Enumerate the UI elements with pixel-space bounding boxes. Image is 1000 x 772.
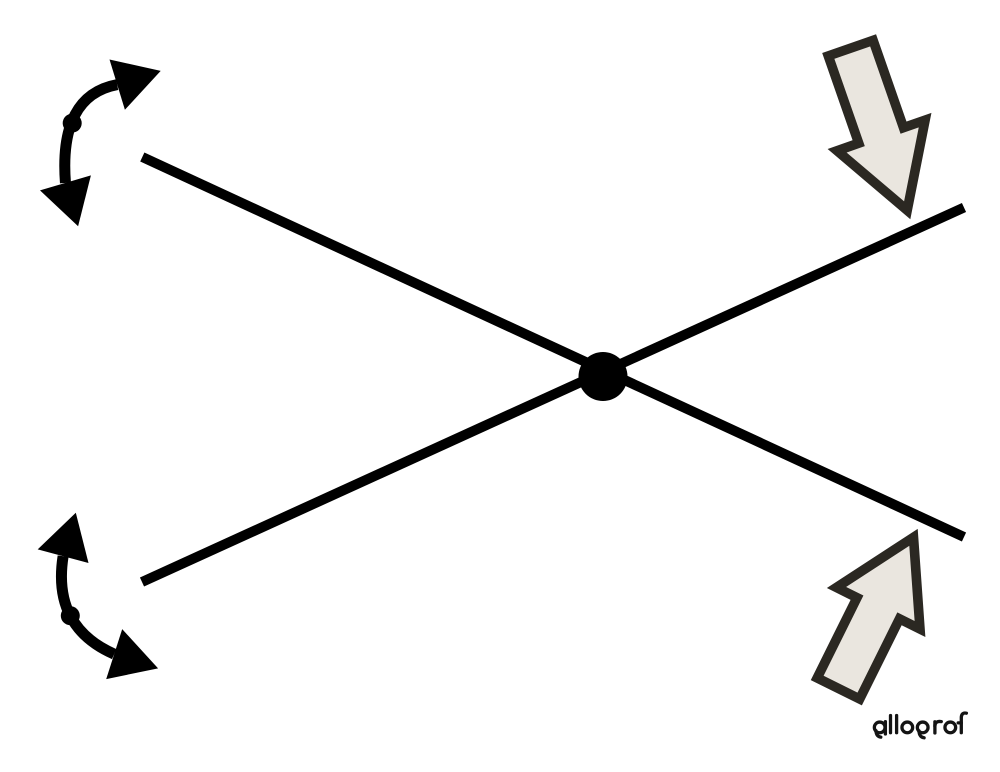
alloprof logo wordmark bbox=[874, 713, 966, 738]
block arrow top-right, pointing down at the upper line bbox=[828, 40, 925, 210]
curved rotation double-arrow, top-left bbox=[40, 60, 161, 227]
line 1 (descending, upper-left to lower-right) bbox=[142, 157, 964, 537]
block arrow bottom-right, pointing up at the lower line bbox=[817, 537, 920, 699]
vertex point at intersection bbox=[579, 352, 628, 401]
line 2 (ascending, lower-left to upper-right) bbox=[142, 208, 964, 583]
curved rotation double-arrow, bottom-left bbox=[38, 513, 158, 679]
